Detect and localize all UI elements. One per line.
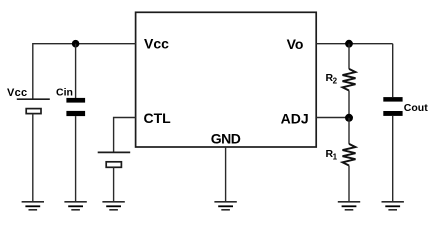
ground (below Cout) (382, 202, 404, 210)
capacitor Cout bottom plate (383, 111, 402, 116)
wire ADJ pin to node (316, 117, 349, 119)
ground (below Cin) (64, 202, 86, 210)
wire GND pin to ground (225, 147, 227, 202)
op-amp U1 (regulator IC body) (136, 12, 317, 147)
node junction dot on Vo rail (345, 40, 353, 48)
wire battery B2 to ground (113, 167, 115, 202)
svg-text:CTL: CTL (144, 110, 172, 126)
ground (below B1) (22, 202, 44, 210)
wire battery B1 to ground (32, 114, 34, 202)
battery B1 bottom plate (hollow box) (26, 109, 41, 114)
wire R2 to ADJ node (348, 91, 350, 118)
svg-text:Vo: Vo (287, 36, 304, 52)
svg-text:GND: GND (211, 130, 241, 146)
svg-text:1: 1 (333, 153, 338, 162)
wire Cout to ground (392, 116, 394, 202)
node junction dot at ADJ (345, 114, 353, 122)
battery B1 top plate (17, 98, 50, 100)
node junction dot on Vcc rail (72, 40, 80, 48)
svg-text:Cin: Cin (56, 86, 73, 98)
ground (below B2) (102, 202, 124, 210)
wire Vo rail down to Cout (392, 44, 394, 97)
ground (below R1) (338, 202, 360, 210)
wire junction down to Cin (75, 44, 77, 98)
wire CTL pin to battery B2 (114, 118, 136, 153)
svg-text:2: 2 (333, 76, 338, 85)
battery B2 top plate (98, 151, 131, 153)
ground (below GND pin) (214, 202, 236, 210)
battery B2 bottom plate (hollow box) (106, 162, 121, 168)
svg-text:Cout: Cout (404, 102, 428, 114)
capacitor Cout top plate (383, 97, 402, 102)
wire Vo rail (Vo pin to Cout) (316, 43, 393, 45)
svg-text:Vcc: Vcc (144, 36, 169, 52)
svg-text:Vcc: Vcc (7, 87, 27, 99)
wire Vcc rail (battery to Vcc pin) (33, 44, 136, 99)
svg-text:ADJ: ADJ (281, 110, 309, 126)
resistor R2 zigzag (343, 69, 356, 91)
capacitor Cin top plate (66, 98, 85, 103)
wire Cin to ground (75, 116, 77, 202)
resistor R1 zigzag (343, 144, 356, 166)
capacitor Cin bottom plate (66, 111, 85, 116)
wire ADJ node down to R1 (348, 118, 350, 144)
wire R1 to ground (348, 166, 350, 202)
wire Vo junction down to R2 (348, 44, 350, 69)
